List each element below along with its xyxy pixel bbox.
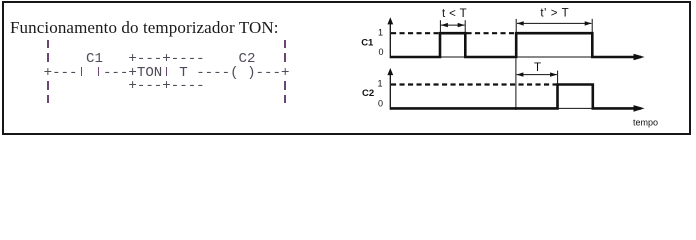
C1 level-1 tick label — [378, 27, 383, 37]
svg-text:C2: C2 — [362, 88, 374, 99]
C1 signal label — [361, 37, 374, 48]
C2 signal label — [362, 88, 374, 99]
ladder diagram: contact C1, timer box TON T, coil C2, left and right power rails — [44, 39, 290, 108]
dimension 't < T' over pulse 1: extension lines, double arrow, text — [440, 8, 467, 33]
C2 level-1 tick label — [377, 79, 382, 89]
C1 horizontal time axis with right arrow — [390, 54, 644, 61]
C1 dashed level-1 line (between pulses) — [467, 32, 517, 34]
C1 signal trace: low, pulse 1 (t < T), low, pulse 2 (t' > T), low to arrow — [390, 33, 641, 57]
title text — [10, 18, 279, 38]
C1 level-0 tick label — [378, 47, 383, 57]
dimension T (timer delay): long extension line from C1 rise, right extension, double arrow, text — [516, 58, 558, 110]
C2 horizontal time axis with right arrow — [390, 105, 644, 112]
svg-text:0: 0 — [378, 99, 383, 109]
svg-text:0: 0 — [378, 47, 383, 57]
C2 signal trace: low, output pulse, low to arrow — [390, 85, 641, 109]
tempo axis caption — [633, 118, 658, 128]
svg-text:t' > T: t' > T — [540, 8, 569, 20]
svg-text:1: 1 — [378, 27, 383, 37]
svg-text:T: T — [534, 62, 541, 74]
svg-text:t < T: t < T — [442, 8, 467, 20]
C2 vertical axis with up arrow — [387, 68, 393, 110]
svg-text:tempo: tempo — [633, 118, 658, 128]
C2 dashed level-1 line up to output pulse — [391, 83, 558, 85]
dimension t' > T over pulse 2: extension lines, double arrow, text — [516, 8, 592, 33]
C2 level-0 tick label — [378, 99, 383, 109]
C1 dashed level-1 line (left of pulse 1) — [391, 32, 440, 34]
C1 vertical axis with up arrow — [387, 17, 393, 58]
svg-text:1: 1 — [377, 79, 382, 89]
svg-text:C1: C1 — [361, 37, 374, 48]
border frame — [2, 1, 691, 135]
